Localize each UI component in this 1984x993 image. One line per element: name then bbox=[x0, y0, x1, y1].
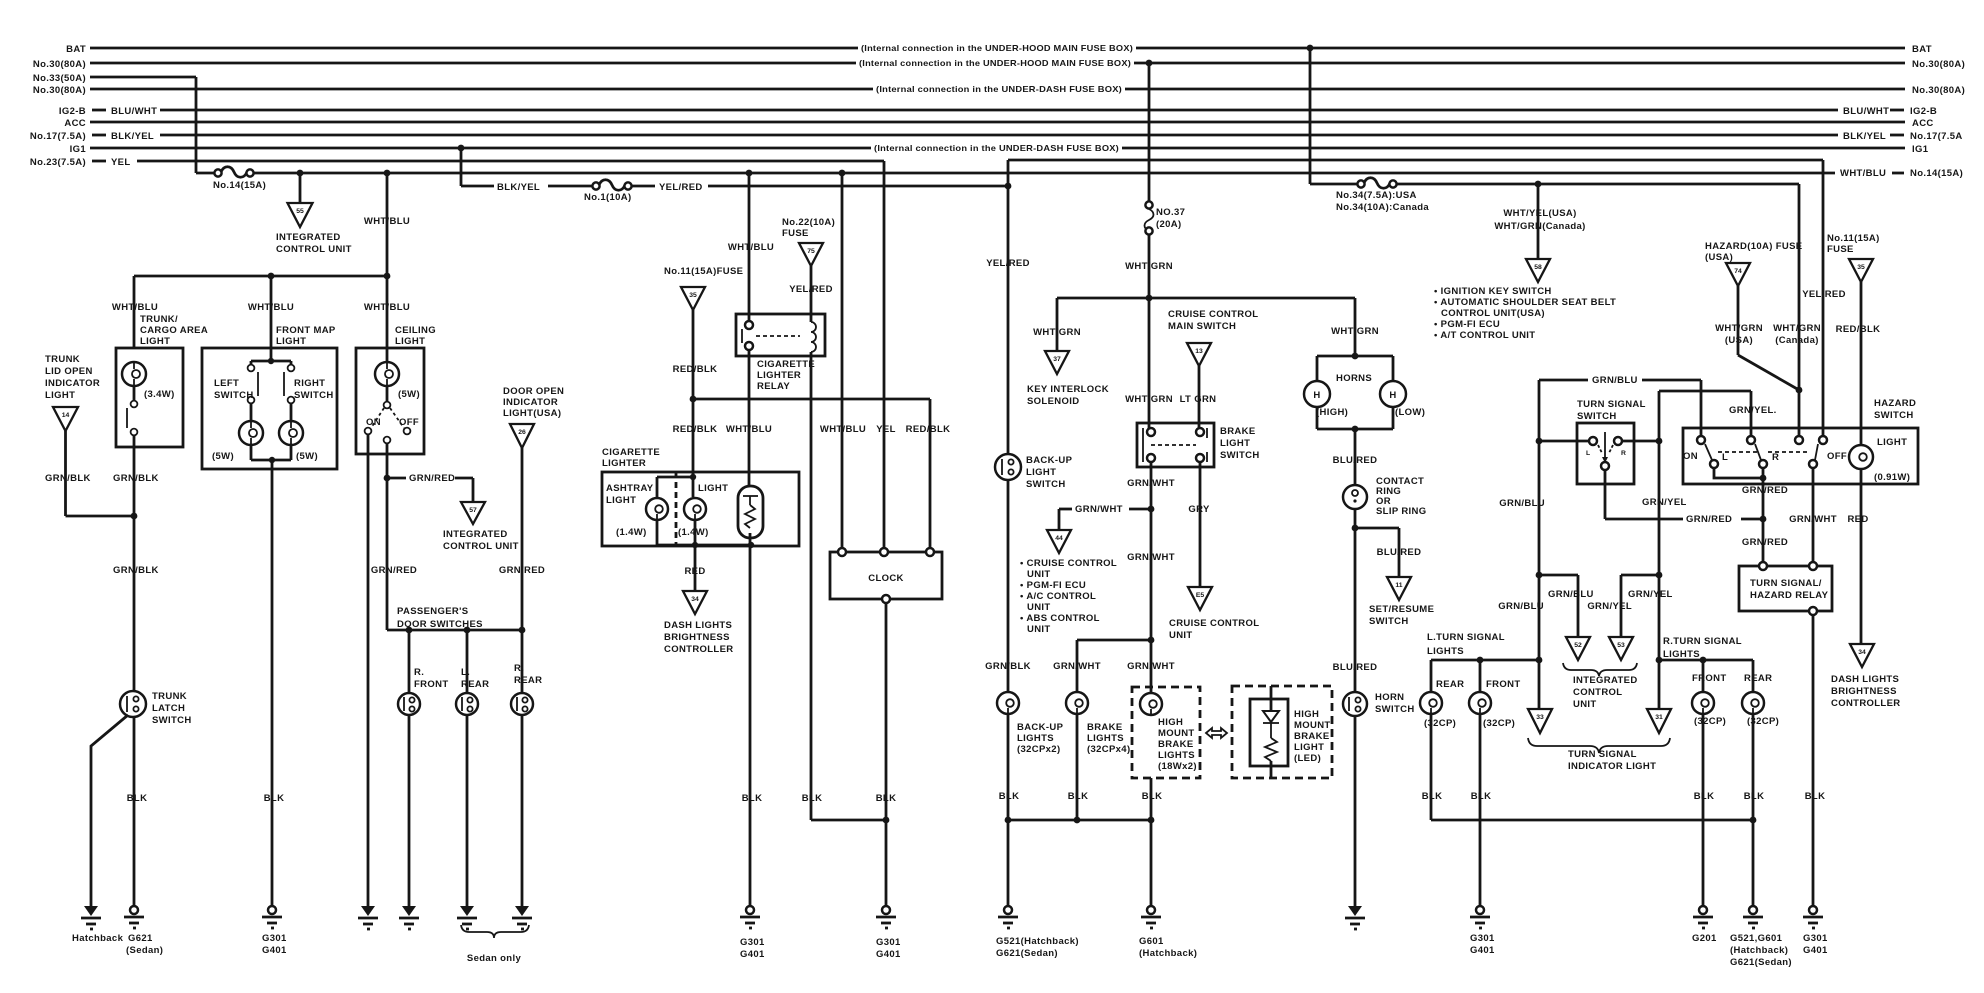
svg-text:(32CPx2): (32CPx2) bbox=[1017, 744, 1060, 755]
lamp hazard LIGHT (0.91W) bbox=[1849, 437, 1910, 483]
wire WHT/BLU to clock bbox=[820, 173, 866, 552]
svg-text:REAR: REAR bbox=[514, 675, 542, 686]
svg-text:35: 35 bbox=[1857, 264, 1865, 271]
wire BLK high mount to ground bbox=[1142, 778, 1163, 906]
wire GRN/BLK back-up down bbox=[985, 480, 1031, 692]
svg-text:(5W): (5W) bbox=[296, 451, 318, 462]
wire WHT/GRN distribution y298 bbox=[1057, 297, 1355, 300]
svg-text:G301: G301 bbox=[740, 937, 765, 948]
wire trunk latch to hatchback ground bbox=[91, 715, 128, 906]
wire drop to connector 33 bbox=[1538, 660, 1541, 709]
svg-text:LIGHT: LIGHT bbox=[45, 390, 75, 401]
LED high mount assembly bbox=[1250, 686, 1331, 778]
lamp ceiling (5W) bbox=[375, 348, 420, 400]
svg-text:• PGM-FI ECU: • PGM-FI ECU bbox=[1434, 319, 1500, 330]
svg-text:GRN/BLK: GRN/BLK bbox=[113, 473, 159, 484]
connector 33 turn signal indicator bbox=[1528, 709, 1552, 733]
svg-text:CRUISE CONTROL: CRUISE CONTROL bbox=[1168, 309, 1258, 320]
ground ceiling ON (filled) bbox=[358, 906, 378, 929]
wire clock ground bus bbox=[802, 603, 897, 906]
label R.TURN SIGNAL LIGHTS bbox=[1663, 636, 1742, 660]
wire R turn signal bus y660 bbox=[1659, 660, 1753, 692]
svg-text:GRN/WHT: GRN/WHT bbox=[1127, 661, 1175, 672]
svg-text:BLK: BLK bbox=[127, 793, 148, 804]
node junction GRN/WHT y640 bbox=[1148, 637, 1155, 644]
label TURN SIGNAL SWITCH bbox=[1577, 399, 1646, 422]
svg-text:BACK-UP: BACK-UP bbox=[1026, 455, 1073, 466]
svg-text:No.17(7.5A: No.17(7.5A bbox=[1910, 131, 1963, 142]
svg-text:MOUNT: MOUNT bbox=[1158, 728, 1195, 739]
turn signal hazard relay box bbox=[1739, 562, 1832, 615]
connector 55 INTEGRATED CONTROL UNIT bbox=[276, 203, 352, 255]
connector 75 fuse No.22 bbox=[799, 243, 823, 266]
wire ACC bus bbox=[64, 118, 1933, 129]
svg-text:• PGM-FI ECU: • PGM-FI ECU bbox=[1020, 580, 1086, 591]
wire RED/BLK from fuse 35 bbox=[673, 310, 718, 399]
wire TS switch right link bbox=[1622, 440, 1659, 443]
svg-text:31: 31 bbox=[1655, 714, 1663, 721]
high mount brake lights dashed box bbox=[1132, 687, 1200, 778]
ground R.REAR (filled) bbox=[512, 906, 532, 929]
svg-text:CEILING: CEILING bbox=[395, 325, 436, 336]
brace integrated control unit bbox=[1563, 663, 1638, 710]
svg-text:GRN/WHT: GRN/WHT bbox=[1075, 504, 1123, 515]
svg-text:GRN/RED: GRN/RED bbox=[409, 473, 455, 484]
svg-text:(LOW): (LOW) bbox=[1395, 407, 1425, 418]
svg-text:E5: E5 bbox=[1196, 592, 1205, 599]
label CEILING LIGHT bbox=[395, 325, 436, 347]
svg-text:FUSE: FUSE bbox=[1827, 244, 1854, 255]
node junction R bus x1659 bbox=[1656, 657, 1663, 664]
node junction on No.14 line x300 bbox=[297, 170, 304, 177]
svg-text:G521,G601: G521,G601 bbox=[1730, 933, 1783, 944]
svg-text:GRN/WHT: GRN/WHT bbox=[1127, 552, 1175, 563]
svg-text:LIGHT: LIGHT bbox=[276, 336, 306, 347]
svg-text:34: 34 bbox=[1858, 649, 1866, 656]
wire BLU/RED branch to set/resume bbox=[1355, 528, 1421, 577]
svg-text:L.TURN SIGNAL: L.TURN SIGNAL bbox=[1427, 632, 1505, 643]
ground G601 high mount bbox=[1139, 906, 1197, 959]
lamp R front turn signal bbox=[1692, 673, 1726, 727]
wire GRN/RED branch to ICU 57 bbox=[387, 473, 473, 502]
node junction R bus x1703 bbox=[1700, 657, 1707, 664]
node junction horns return bbox=[1352, 426, 1359, 433]
svg-text:G401: G401 bbox=[262, 945, 287, 956]
wire YEL/RED down to back-up switch bbox=[986, 186, 1030, 454]
svg-text:(5W): (5W) bbox=[212, 451, 234, 462]
svg-text:G401: G401 bbox=[740, 949, 765, 960]
lamp brake lights bbox=[1066, 692, 1130, 755]
svg-text:GRN/BLU: GRN/BLU bbox=[1498, 601, 1544, 612]
svg-text:YEL/RED: YEL/RED bbox=[1802, 289, 1846, 300]
wire map light feed split bbox=[251, 348, 291, 364]
svg-text:IG1: IG1 bbox=[1912, 144, 1929, 155]
wire WHT/BLU drop to map light bbox=[248, 276, 294, 348]
wire GRN/YEL riser and run bbox=[1642, 391, 1777, 508]
node junction YEL/RED x1008 bbox=[1005, 183, 1012, 190]
svg-text:G401: G401 bbox=[1803, 945, 1828, 956]
svg-text:HIGH: HIGH bbox=[1158, 717, 1183, 728]
svg-text:14: 14 bbox=[62, 412, 70, 419]
breaker NO.37 (20A) bbox=[1145, 201, 1186, 234]
svg-text:G401: G401 bbox=[1470, 945, 1495, 956]
svg-text:(32CPx4): (32CPx4) bbox=[1087, 744, 1130, 755]
lamp R rear turn signal bbox=[1742, 673, 1779, 727]
label TRUNK LID OPEN INDICATOR LIGHT bbox=[45, 354, 100, 401]
svg-text:BLU/RED: BLU/RED bbox=[1377, 547, 1422, 558]
svg-text:RED/BLK: RED/BLK bbox=[1836, 324, 1881, 335]
svg-text:REAR: REAR bbox=[1744, 673, 1772, 684]
high mount LED dashed box bbox=[1232, 686, 1332, 778]
svg-text:GRN/WHT: GRN/WHT bbox=[1789, 514, 1837, 525]
svg-text:BLK: BLK bbox=[742, 793, 763, 804]
svg-text:No.30(80A): No.30(80A) bbox=[33, 85, 86, 96]
svg-text:(USA): (USA) bbox=[1705, 252, 1733, 263]
wire BLK map light down bbox=[264, 460, 285, 906]
svg-text:(Hatchback): (Hatchback) bbox=[1730, 945, 1788, 956]
svg-text:GRN/YEL: GRN/YEL bbox=[1642, 497, 1687, 508]
svg-text:No.17(7.5A): No.17(7.5A) bbox=[30, 131, 86, 142]
svg-text:CONTROL UNIT: CONTROL UNIT bbox=[276, 244, 352, 255]
svg-text:WHT/GRN(Canada): WHT/GRN(Canada) bbox=[1494, 221, 1585, 232]
wire No.30(80A) bus bbox=[33, 58, 1965, 70]
svg-text:YEL: YEL bbox=[111, 157, 131, 168]
svg-text:GRN/RED: GRN/RED bbox=[1686, 514, 1732, 525]
svg-text:CARGO AREA: CARGO AREA bbox=[140, 325, 208, 336]
svg-text:WHT/GRN: WHT/GRN bbox=[1033, 327, 1081, 338]
connector 53 ICU bbox=[1609, 637, 1633, 660]
wire WHT/GRN to horns bbox=[1331, 298, 1379, 356]
wire R front drop bbox=[1702, 660, 1705, 692]
label HAZARD(10A) FUSE (USA) bbox=[1705, 241, 1802, 263]
svg-text:CONTROL UNIT: CONTROL UNIT bbox=[443, 541, 519, 552]
svg-text:(5W): (5W) bbox=[398, 389, 420, 400]
svg-text:GRN/BLU: GRN/BLU bbox=[1592, 375, 1638, 386]
svg-text:HAZARD(10A) FUSE: HAZARD(10A) FUSE bbox=[1705, 241, 1802, 252]
svg-text:OFF: OFF bbox=[1827, 451, 1847, 462]
svg-text:H: H bbox=[1313, 390, 1320, 401]
svg-text:UNIT: UNIT bbox=[1573, 699, 1597, 710]
svg-text:(Hatchback): (Hatchback) bbox=[1139, 948, 1197, 959]
svg-text:BLK/YEL: BLK/YEL bbox=[111, 131, 154, 142]
svg-text:No.22(10A): No.22(10A) bbox=[782, 217, 835, 228]
svg-text:BRAKE: BRAKE bbox=[1087, 722, 1123, 733]
lamp high mount brake lights bbox=[1140, 693, 1197, 772]
svg-text:LIGHTER: LIGHTER bbox=[602, 458, 646, 469]
switch left map bbox=[214, 365, 258, 404]
node junction L bus x1539 bbox=[1536, 657, 1543, 664]
svg-text:(1.4W): (1.4W) bbox=[678, 527, 709, 538]
connector 31 turn signal indicator bbox=[1647, 709, 1671, 733]
node junction L bus x1480 bbox=[1477, 657, 1484, 664]
svg-text:TRUNK: TRUNK bbox=[45, 354, 80, 365]
svg-text:INDICATOR LIGHT: INDICATOR LIGHT bbox=[1568, 761, 1656, 772]
back-up light switch bbox=[995, 454, 1073, 490]
svg-text:No.34(10A):Canada: No.34(10A):Canada bbox=[1336, 202, 1429, 213]
wire GRN/YEL down from TS right bbox=[1587, 441, 1659, 660]
wire YEL to clock bbox=[876, 161, 896, 552]
node junction map feed bbox=[268, 358, 274, 364]
contact ring or slip ring bbox=[1343, 476, 1426, 517]
svg-text:• AUTOMATIC SHOULDER SEAT BELT: • AUTOMATIC SHOULDER SEAT BELT bbox=[1434, 297, 1616, 308]
svg-text:GRN/RED: GRN/RED bbox=[499, 565, 545, 576]
svg-text:53: 53 bbox=[1617, 642, 1625, 649]
svg-text:HIGH: HIGH bbox=[1294, 709, 1319, 720]
svg-text:37: 37 bbox=[1053, 356, 1061, 363]
horn LOW bbox=[1380, 381, 1425, 418]
svg-text:BLK: BLK bbox=[1744, 791, 1765, 802]
equivalence arrow bbox=[1206, 728, 1227, 738]
svg-text:L: L bbox=[1722, 452, 1728, 463]
svg-text:LATCH: LATCH bbox=[152, 703, 185, 714]
svg-text:HORNS: HORNS bbox=[1336, 373, 1372, 384]
svg-text:(32CP): (32CP) bbox=[1424, 718, 1456, 729]
ground G521 G601 R rear bbox=[1730, 906, 1792, 968]
node junction GRN/YEL y575 bbox=[1656, 572, 1663, 579]
wire BLK back-up lamp to ground bbox=[999, 714, 1020, 906]
wire BAT drop to No.34 fuse line bbox=[1310, 48, 1357, 184]
wire WHT/BLU vertical x387 bbox=[364, 173, 410, 348]
svg-text:GRN/YEL: GRN/YEL bbox=[1587, 601, 1632, 612]
wire WHT/GRN (Canada) drop bbox=[1773, 184, 1821, 440]
svg-text:G301: G301 bbox=[262, 933, 287, 944]
svg-text:WHT/GRN: WHT/GRN bbox=[1125, 394, 1173, 405]
svg-text:LIGHT: LIGHT bbox=[698, 483, 728, 494]
svg-text:55: 55 bbox=[296, 208, 304, 215]
svg-text:R.TURN SIGNAL: R.TURN SIGNAL bbox=[1663, 636, 1742, 647]
svg-text:(USA): (USA) bbox=[1725, 335, 1753, 346]
svg-text:(Internal connection in the UN: (Internal connection in the UNDER-DASH F… bbox=[876, 84, 1122, 94]
wire WHT/BLU relay to heater bbox=[726, 350, 772, 486]
svg-text:FUSE: FUSE bbox=[782, 228, 809, 239]
wire YEL/RED from fuse No.1 bbox=[631, 182, 1008, 193]
wire YEL/RED drop to hazard bbox=[1802, 160, 1846, 440]
svg-text:Sedan only: Sedan only bbox=[467, 953, 522, 964]
svg-text:R.: R. bbox=[514, 663, 524, 674]
wire drop to connector 31 bbox=[1658, 660, 1661, 709]
svg-text:BLU/RED: BLU/RED bbox=[1333, 455, 1378, 466]
svg-text:(Sedan): (Sedan) bbox=[126, 945, 163, 956]
wire WHT/BLU No.14 bus bbox=[250, 168, 1963, 179]
wire GRN/WHT hazard OFF to relay bbox=[1789, 468, 1837, 566]
svg-text:GRN/BLU: GRN/BLU bbox=[1548, 589, 1594, 600]
wire horns return bus bbox=[1317, 407, 1393, 429]
svg-text:No.30(80A): No.30(80A) bbox=[1912, 59, 1965, 70]
label cruise/pgm-fi/ac/abs list bbox=[1020, 558, 1117, 635]
svg-text:LIGHTS: LIGHTS bbox=[1427, 646, 1464, 657]
svg-text:58: 58 bbox=[1534, 264, 1542, 271]
svg-text:WHT/BLU: WHT/BLU bbox=[820, 424, 866, 435]
svg-text:MAIN SWITCH: MAIN SWITCH bbox=[1168, 321, 1236, 332]
node junction on No.14 line x387 bbox=[384, 170, 391, 177]
fuse No.34 bbox=[1336, 178, 1429, 213]
svg-text:G521(Hatchback): G521(Hatchback) bbox=[996, 936, 1079, 947]
svg-text:ACC: ACC bbox=[64, 118, 86, 129]
wire ceiling ON to ground bbox=[367, 434, 370, 906]
wire GRN/YEL branch to ICU 53 bbox=[1621, 575, 1673, 637]
node junction GRN/BLK x134 y516 bbox=[131, 513, 138, 520]
connector 35 fuse No.11 bbox=[681, 287, 705, 310]
wire WHT/BLU drop to trunk light bbox=[112, 276, 158, 348]
svg-text:TRUNK: TRUNK bbox=[152, 691, 187, 702]
svg-text:R: R bbox=[1772, 452, 1779, 463]
ground L.REAR (filled) bbox=[457, 906, 477, 929]
wire lamp return bus bbox=[657, 520, 751, 545]
svg-text:BRAKE: BRAKE bbox=[1158, 739, 1194, 750]
wire GRN/RED ceiling center down bbox=[371, 443, 417, 630]
svg-text:H: H bbox=[1389, 390, 1396, 401]
svg-text:CONTROLLER: CONTROLLER bbox=[1831, 698, 1900, 709]
connector 34 dash lights brightness bbox=[664, 591, 733, 655]
svg-text:BLK: BLK bbox=[1805, 791, 1826, 802]
wire BLK heater to ground bbox=[742, 545, 763, 906]
svg-text:G621(Sedan): G621(Sedan) bbox=[1730, 957, 1792, 968]
svg-text:BAT: BAT bbox=[1912, 44, 1932, 55]
svg-text:RIGHT: RIGHT bbox=[294, 378, 325, 389]
node junction BAT bus x1310 bbox=[1307, 45, 1314, 52]
svg-text:74: 74 bbox=[1734, 268, 1742, 275]
ceiling light box bbox=[356, 348, 424, 454]
svg-text:CONTROL: CONTROL bbox=[1573, 687, 1622, 698]
wire RED to dash brightness bbox=[684, 545, 705, 591]
wire GRN/RED from TS switch bbox=[1605, 470, 1763, 525]
lamp ashtray light (1.4W) bbox=[606, 483, 668, 538]
wire RED hazard lamp down bbox=[1847, 469, 1868, 644]
lamp cigarette LIGHT (1.4W) bbox=[678, 483, 728, 538]
ground G301 G401 L front bbox=[1470, 906, 1495, 956]
connector 58 ignition key switch etc bbox=[1526, 259, 1550, 282]
svg-text:ON: ON bbox=[1683, 451, 1698, 462]
wire WHT/YEL drop to connector 58 bbox=[1494, 184, 1585, 259]
svg-text:G621(Sedan): G621(Sedan) bbox=[996, 948, 1058, 959]
brake light switch bbox=[1137, 423, 1260, 467]
svg-text:(32CP): (32CP) bbox=[1694, 716, 1726, 727]
connector 13 cruise main switch bbox=[1187, 343, 1211, 366]
svg-text:SWITCH: SWITCH bbox=[1874, 410, 1914, 421]
svg-text:No.14(15A): No.14(15A) bbox=[1910, 168, 1963, 179]
svg-text:G301: G301 bbox=[876, 937, 901, 948]
turn signal switch box bbox=[1577, 423, 1634, 484]
svg-text:33: 33 bbox=[1536, 714, 1544, 721]
svg-text:RED: RED bbox=[1847, 514, 1868, 525]
label DOOR OPEN INDICATOR LIGHT(USA) bbox=[503, 386, 564, 419]
node junction TS BLK bus x1753 bbox=[1750, 817, 1757, 824]
svg-text:LIGHT: LIGHT bbox=[395, 336, 425, 347]
connector 44 cruise etc bbox=[1047, 530, 1071, 553]
wire L turn signal bus y660 bbox=[1431, 660, 1541, 692]
wire IG1 drop to BLK/YEL bbox=[460, 148, 463, 186]
ground horn switch (filled) bbox=[1345, 906, 1365, 929]
svg-text:(3.4W): (3.4W) bbox=[144, 389, 175, 400]
svg-text:G601: G601 bbox=[1139, 936, 1164, 947]
svg-text:RED/BLK: RED/BLK bbox=[673, 364, 718, 375]
svg-text:(Internal connection in the UN: (Internal connection in the UNDER-DASH F… bbox=[874, 143, 1119, 153]
svg-text:(0.91W): (0.91W) bbox=[1874, 472, 1910, 483]
svg-text:UNIT: UNIT bbox=[1169, 630, 1193, 641]
svg-text:G401: G401 bbox=[876, 949, 901, 960]
svg-text:GRN/BLK: GRN/BLK bbox=[113, 565, 159, 576]
lamp trunk cargo (3.4W) bbox=[122, 362, 175, 400]
node junction door bus x467 bbox=[464, 627, 471, 634]
svg-text:BLK: BLK bbox=[1422, 791, 1443, 802]
hazard switch contacts bbox=[1683, 436, 1847, 468]
svg-text:LIGHT: LIGHT bbox=[1220, 438, 1250, 449]
svg-text:LIGHT: LIGHT bbox=[1026, 467, 1056, 478]
svg-text:BLK: BLK bbox=[1471, 791, 1492, 802]
svg-text:GRY: GRY bbox=[1188, 504, 1210, 515]
svg-text:BLK: BLK bbox=[802, 793, 823, 804]
node junction y276 x387 bbox=[384, 273, 391, 280]
wire GRN/RED door indicator down bbox=[499, 448, 545, 693]
svg-text:BLK: BLK bbox=[264, 793, 285, 804]
node junction lamp feed bbox=[690, 474, 696, 480]
svg-text:No.11(15A): No.11(15A) bbox=[1827, 233, 1880, 244]
svg-text:PASSENGER'S: PASSENGER'S bbox=[397, 606, 468, 617]
node junction BLK bus x1008 bbox=[1005, 817, 1012, 824]
svg-text:SWITCH: SWITCH bbox=[1375, 704, 1415, 715]
label CIGARETTE LIGHTER bbox=[602, 447, 660, 469]
svg-text:• IGNITION KEY SWITCH: • IGNITION KEY SWITCH bbox=[1434, 286, 1552, 297]
trunk cargo light box bbox=[116, 348, 183, 447]
wire BLK trunk latch down bbox=[127, 717, 148, 906]
wire No.30 drop to breaker No.37 bbox=[1148, 63, 1151, 201]
switch right map bbox=[284, 365, 334, 404]
svg-text:G301: G301 bbox=[1470, 933, 1495, 944]
label HAZARD SWITCH bbox=[1874, 398, 1916, 421]
svg-text:UNIT: UNIT bbox=[1027, 569, 1051, 580]
svg-text:DASH LIGHTS: DASH LIGHTS bbox=[664, 620, 732, 631]
svg-text:NO.37: NO.37 bbox=[1156, 207, 1185, 218]
svg-text:BLK: BLK bbox=[999, 791, 1020, 802]
svg-text:RED/BLK: RED/BLK bbox=[906, 424, 951, 435]
svg-text:No.34(7.5A):USA: No.34(7.5A):USA bbox=[1336, 190, 1417, 201]
svg-text:BLK: BLK bbox=[876, 793, 897, 804]
wire hazard L return jog bbox=[1714, 468, 1763, 478]
node junction door bus x409 bbox=[406, 627, 413, 634]
wire BLK L front to ground bbox=[1471, 714, 1492, 906]
wire YEL/RED riser and run to hazard bbox=[1008, 160, 1823, 186]
label PASSENGER'S DOOR SWITCHES bbox=[397, 606, 483, 630]
wire GRY brake switch to cruise unit bbox=[1188, 462, 1210, 587]
node junction GRN/WHT y509 bbox=[1148, 506, 1155, 513]
wire WHT/BLU distribution bus y276 bbox=[134, 275, 387, 278]
svg-text:BACK-UP: BACK-UP bbox=[1017, 722, 1064, 733]
svg-text:WHT/BLU: WHT/BLU bbox=[1840, 168, 1886, 179]
wire map lamps to ground bus bbox=[251, 445, 291, 460]
node junction WHT/GRN y390 bbox=[1796, 387, 1803, 394]
svg-text:(Canada): (Canada) bbox=[1775, 335, 1818, 346]
svg-text:BLK: BLK bbox=[1068, 791, 1089, 802]
ground R.FRONT (filled) bbox=[399, 906, 419, 929]
wire IG1 bus bbox=[70, 143, 1929, 155]
svg-text:OFF: OFF bbox=[399, 417, 419, 428]
connector 74 hazard fuse bbox=[1726, 263, 1750, 286]
svg-text:GRN/BLK: GRN/BLK bbox=[45, 473, 91, 484]
node junction fuse line x1538 bbox=[1535, 181, 1542, 188]
wire WHT/GRN to key interlock bbox=[1033, 298, 1081, 351]
svg-text:TURN SIGNAL: TURN SIGNAL bbox=[1577, 399, 1646, 410]
svg-text:SET/RESUME: SET/RESUME bbox=[1369, 604, 1434, 615]
wire R.FRONT drop bbox=[408, 630, 411, 693]
heater element cigarette lighter bbox=[738, 486, 763, 545]
relay cigarette lighter bbox=[736, 314, 825, 392]
wire drop to ICU connector 55 bbox=[299, 173, 302, 203]
connector 37 key interlock solenoid bbox=[1027, 351, 1109, 407]
ground G301 G401 clock bbox=[876, 906, 901, 960]
node junction IG1 x461 bbox=[458, 145, 465, 152]
svg-text:IG2-B: IG2-B bbox=[1910, 106, 1937, 117]
wire horn switch to ground bbox=[1354, 716, 1357, 906]
